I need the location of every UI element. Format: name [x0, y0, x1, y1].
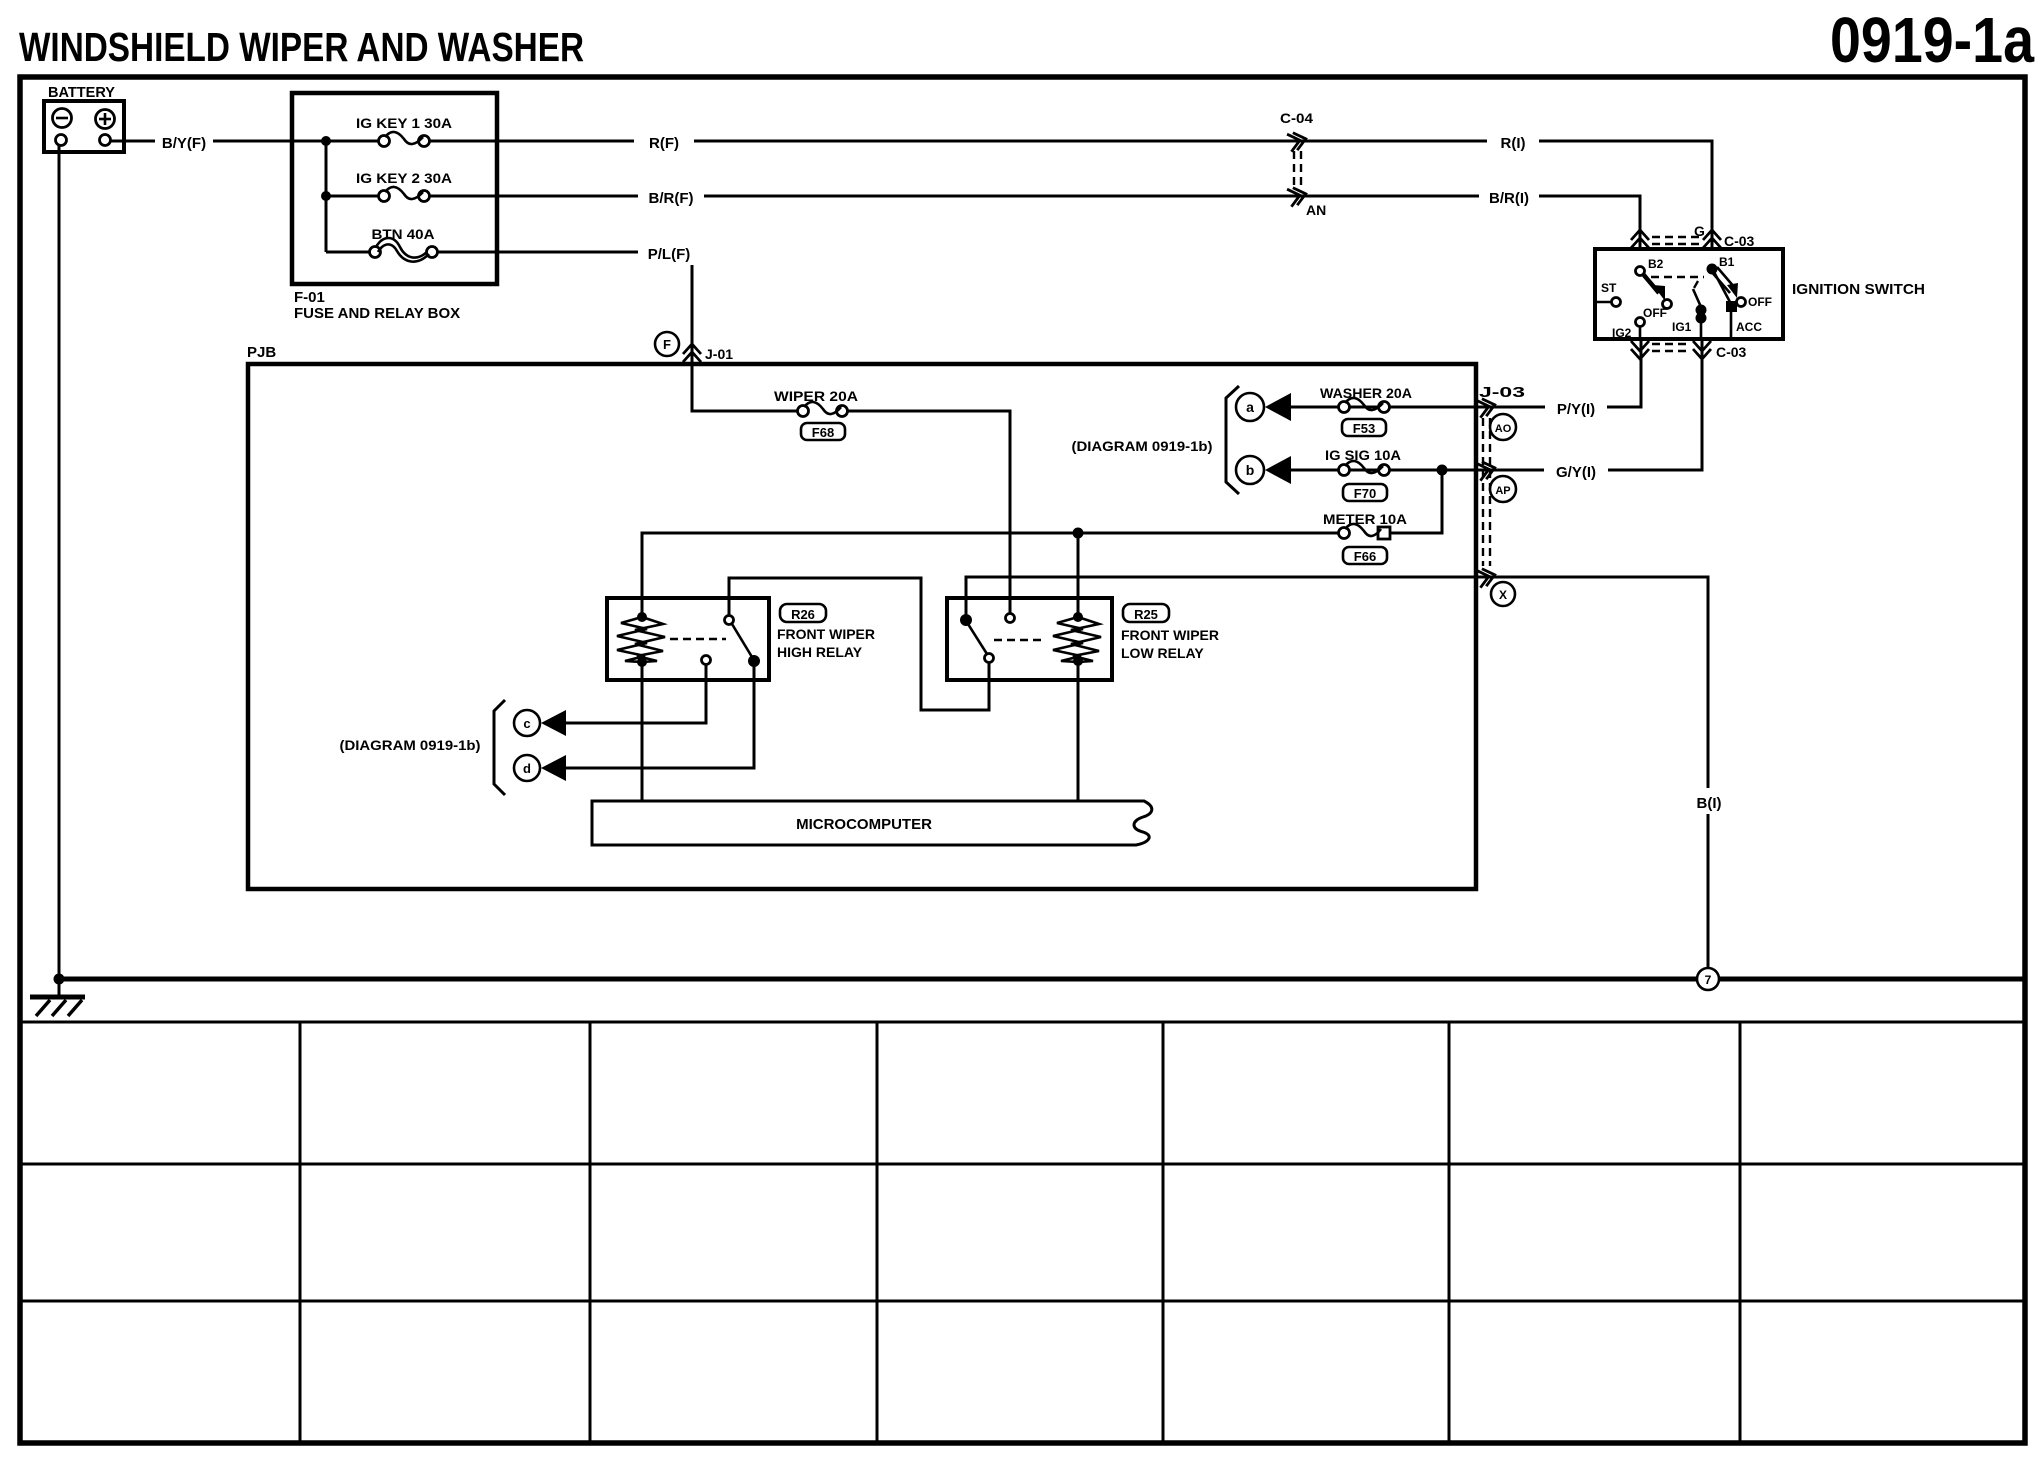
svg-text:B1: B1: [1719, 255, 1735, 269]
svg-text:HIGH RELAY: HIGH RELAY: [777, 644, 863, 660]
svg-text:IG KEY 2 30A: IG KEY 2 30A: [356, 170, 452, 186]
svg-text:IG SIG 10A: IG SIG 10A: [1325, 447, 1401, 463]
table top line: [20, 1021, 2025, 1024]
table column line 5: [1448, 1022, 1451, 1443]
fuse METER 10A: [1323, 511, 1407, 564]
ground bus wire: [59, 977, 2025, 982]
wire IG SIG fuse line b-arrow to PJB edge: [1290, 469, 1476, 472]
fuse tag F70: [1343, 484, 1387, 501]
svg-text:AN: AN: [1306, 202, 1326, 218]
fuse tag F53: [1342, 419, 1386, 436]
node F-01 junction fuse2: [321, 191, 331, 201]
svg-text:METER 10A: METER 10A: [1323, 511, 1407, 527]
svg-text:F66: F66: [1354, 549, 1376, 564]
svg-text:WINDSHIELD WIPER AND WASHER: WINDSHIELD WIPER AND WASHER: [19, 24, 584, 70]
wire battery negative to ground bus: [58, 145, 61, 995]
svg-text:IG1: IG1: [1672, 320, 1692, 334]
wire P/L(F) fuse box to PJB J-01: [438, 252, 797, 411]
svg-text:AO: AO: [1495, 423, 1512, 435]
connector J-01 with F circle: [655, 332, 733, 362]
table column line 2: [589, 1022, 592, 1443]
wire B/R(F) row fuse box to ignition corner: [430, 196, 1640, 249]
node ground bus / battery junction: [54, 974, 65, 985]
wire d connector to R26 relay common: [565, 665, 754, 768]
svg-text:ACC: ACC: [1736, 320, 1762, 334]
battery negative terminal: [53, 109, 72, 128]
B2 terminal and arm: [1636, 267, 1645, 276]
microcomputer box: [592, 801, 1152, 845]
wire R25 coil top feed: [1077, 533, 1080, 614]
svg-text:BTN 40A: BTN 40A: [372, 226, 435, 242]
wire label B/R(I): [1479, 183, 1539, 209]
svg-text:WIPER 20A: WIPER 20A: [774, 388, 858, 404]
svg-text:IG2: IG2: [1612, 326, 1632, 340]
bracket for c/d connectors: [494, 700, 505, 795]
wire F-01 internal feed fuse1 to fuse3: [292, 141, 384, 252]
svg-text:MICROCOMPUTER: MICROCOMPUTER: [796, 816, 932, 833]
svg-text:c: c: [523, 716, 530, 731]
svg-text:B/R(I): B/R(I): [1489, 190, 1529, 207]
ACC terminal: [1714, 272, 1730, 302]
wire label B/Y(F): [155, 128, 213, 154]
wire R26 switch to R25 NO contact: [729, 578, 989, 710]
svg-text:B(I): B(I): [1697, 795, 1722, 812]
fuse IG KEY 1 30A: [356, 115, 452, 147]
wire label R(I): [1487, 128, 1539, 154]
svg-text:J-01: J-01: [705, 346, 733, 362]
svg-text:R(F): R(F): [649, 135, 679, 152]
wire METER feed line to R26 coil: [642, 533, 1338, 617]
wire label R(F): [634, 128, 694, 154]
svg-text:G/Y(I): G/Y(I): [1556, 464, 1596, 481]
svg-text:BATTERY: BATTERY: [48, 84, 115, 101]
svg-text:AP: AP: [1495, 485, 1510, 497]
relay R26 coil: [637, 612, 647, 622]
svg-text:P/Y(I): P/Y(I): [1557, 401, 1595, 418]
table column line 4: [1162, 1022, 1165, 1443]
svg-text:C-03: C-03: [1724, 233, 1755, 249]
svg-text:P/L(F): P/L(F): [648, 246, 691, 263]
svg-text:IG KEY 1 30A: IG KEY 1 30A: [356, 115, 452, 131]
mechanical link dashed: [1651, 276, 1704, 278]
svg-text:R(I): R(I): [1501, 135, 1526, 152]
relay tag R25: [1123, 604, 1169, 622]
svg-text:IGNITION SWITCH: IGNITION SWITCH: [1792, 281, 1925, 298]
B1 terminal and arm: [1707, 264, 1718, 275]
wire B/Y(F) battery to fuse box: [110, 140, 292, 143]
svg-text:b: b: [1246, 462, 1255, 478]
svg-text:FRONT WIPER: FRONT WIPER: [777, 626, 875, 642]
svg-text:OFF: OFF: [1748, 295, 1772, 309]
svg-text:d: d: [523, 761, 531, 776]
IG2 terminal: [1636, 318, 1645, 327]
connector C-03 below ignition switch: [1631, 341, 1747, 360]
svg-text:FUSE AND RELAY BOX: FUSE AND RELAY BOX: [294, 305, 460, 322]
wire METER fuse to IG SIG junction: [1390, 470, 1442, 533]
svg-text:(DIAGRAM 0919-1b): (DIAGRAM 0919-1b): [1072, 438, 1213, 454]
table column line 1: [299, 1022, 302, 1443]
svg-text:B/R(F): B/R(F): [649, 190, 694, 207]
svg-text:ST: ST: [1601, 281, 1617, 295]
IG1 terminal: [1693, 289, 1701, 307]
PJB box: [247, 344, 1476, 889]
relay R25 switch contacts: [960, 614, 972, 626]
ignition switch: [1595, 249, 1925, 340]
relay R26 switch contacts: [725, 616, 734, 625]
svg-text:X: X: [1499, 588, 1507, 602]
fuse IG SIG 10A: [1325, 447, 1401, 501]
wire WIPER fuse output down to R25 relay: [848, 411, 1010, 614]
bracket for a/b connectors: [1226, 386, 1239, 494]
wire X line R25 common to PJB edge and B(I) down to ground: [966, 577, 1708, 968]
svg-text:0919-1a: 0919-1a: [1830, 4, 2034, 76]
wire R26 coil bottom to microcomputer: [641, 662, 644, 801]
relay R25 mechanical link: [994, 639, 1042, 641]
wire label P/Y(I): [1545, 394, 1607, 420]
battery: [44, 84, 124, 152]
wire label P/L(F): [638, 239, 700, 265]
fuse tag F66: [1343, 547, 1387, 564]
relay R26 mechanical link: [670, 638, 726, 640]
table row line 2: [20, 1163, 2025, 1166]
fuse and relay box F-01: [292, 93, 497, 322]
svg-text:B2: B2: [1648, 257, 1664, 271]
svg-text:WASHER 20A: WASHER 20A: [1320, 385, 1412, 401]
svg-text:C-04: C-04: [1280, 110, 1313, 126]
wire G/Y(I) PJB edge to IG1 of ignition switch: [1476, 339, 1702, 470]
svg-text:J-03: J-03: [1479, 384, 1525, 401]
svg-text:G: G: [1694, 223, 1705, 239]
svg-text:F53: F53: [1353, 421, 1375, 436]
svg-text:B/Y(F): B/Y(F): [162, 135, 206, 152]
wire R25 coil bottom to microcomputer: [1077, 661, 1080, 801]
fuse IG KEY 2 30A: [356, 170, 452, 202]
battery positive terminal: [96, 110, 115, 129]
svg-text:R26: R26: [791, 607, 815, 622]
connector b with arrow: [1236, 456, 1291, 484]
node 7 ground connector circle: [1697, 968, 1719, 990]
fusible link BTN 40A: [370, 226, 438, 262]
battery positive post: [100, 135, 111, 146]
connector a with arrow: [1236, 393, 1291, 421]
svg-text:a: a: [1246, 399, 1254, 415]
svg-text:7: 7: [1705, 973, 1712, 987]
svg-text:F: F: [663, 337, 671, 352]
wire R(F) row fuse box to ignition corner: [430, 141, 1712, 249]
relay tag R26: [780, 604, 826, 622]
svg-text:C-03: C-03: [1716, 344, 1747, 360]
table row line 3: [20, 1300, 2025, 1303]
fuse WASHER 20A: [1320, 385, 1412, 436]
wire P/Y(I) PJB edge to IG2 of ignition switch: [1476, 339, 1641, 407]
battery negative post: [56, 135, 67, 146]
svg-text:R25: R25: [1134, 607, 1158, 622]
svg-text:FRONT WIPER: FRONT WIPER: [1121, 627, 1219, 643]
wire label G/Y(I): [1544, 457, 1608, 483]
node junction IG SIG / METER: [1437, 465, 1448, 476]
connector c with arrow: [514, 710, 566, 736]
wire c connector to R26 relay contact: [565, 664, 706, 723]
fuse tag F68: [801, 423, 845, 440]
node junction METER/R25 coil feed: [1073, 528, 1084, 539]
svg-text:LOW RELAY: LOW RELAY: [1121, 645, 1204, 661]
ground symbol: [30, 997, 85, 1016]
connector C-04: [1280, 110, 1326, 218]
relay R25 coil: [1073, 612, 1083, 622]
fuse WIPER 20A: [774, 388, 858, 440]
connector C-03 above ignition switch: [1631, 223, 1755, 249]
relay R26 FRONT WIPER HIGH: [607, 598, 875, 680]
relay R25 FRONT WIPER LOW: [947, 598, 1219, 680]
svg-text:(DIAGRAM 0919-1b): (DIAGRAM 0919-1b): [340, 737, 481, 753]
wire label B/R(F): [638, 183, 704, 209]
wire label B(I): [1690, 788, 1728, 814]
connector d with arrow: [514, 755, 566, 781]
svg-text:F70: F70: [1354, 486, 1376, 501]
connector J-03 edge: [1476, 384, 1525, 606]
table column line 3: [876, 1022, 879, 1443]
wire WASHER fuse line a-arrow to PJB edge: [1290, 406, 1476, 409]
svg-text:PJB: PJB: [247, 344, 276, 361]
node F-01 junction fuse1: [321, 136, 331, 146]
svg-text:F-01: F-01: [294, 289, 325, 306]
svg-text:OFF: OFF: [1643, 306, 1667, 320]
table column line 6: [1739, 1022, 1742, 1443]
svg-text:F68: F68: [812, 425, 834, 440]
